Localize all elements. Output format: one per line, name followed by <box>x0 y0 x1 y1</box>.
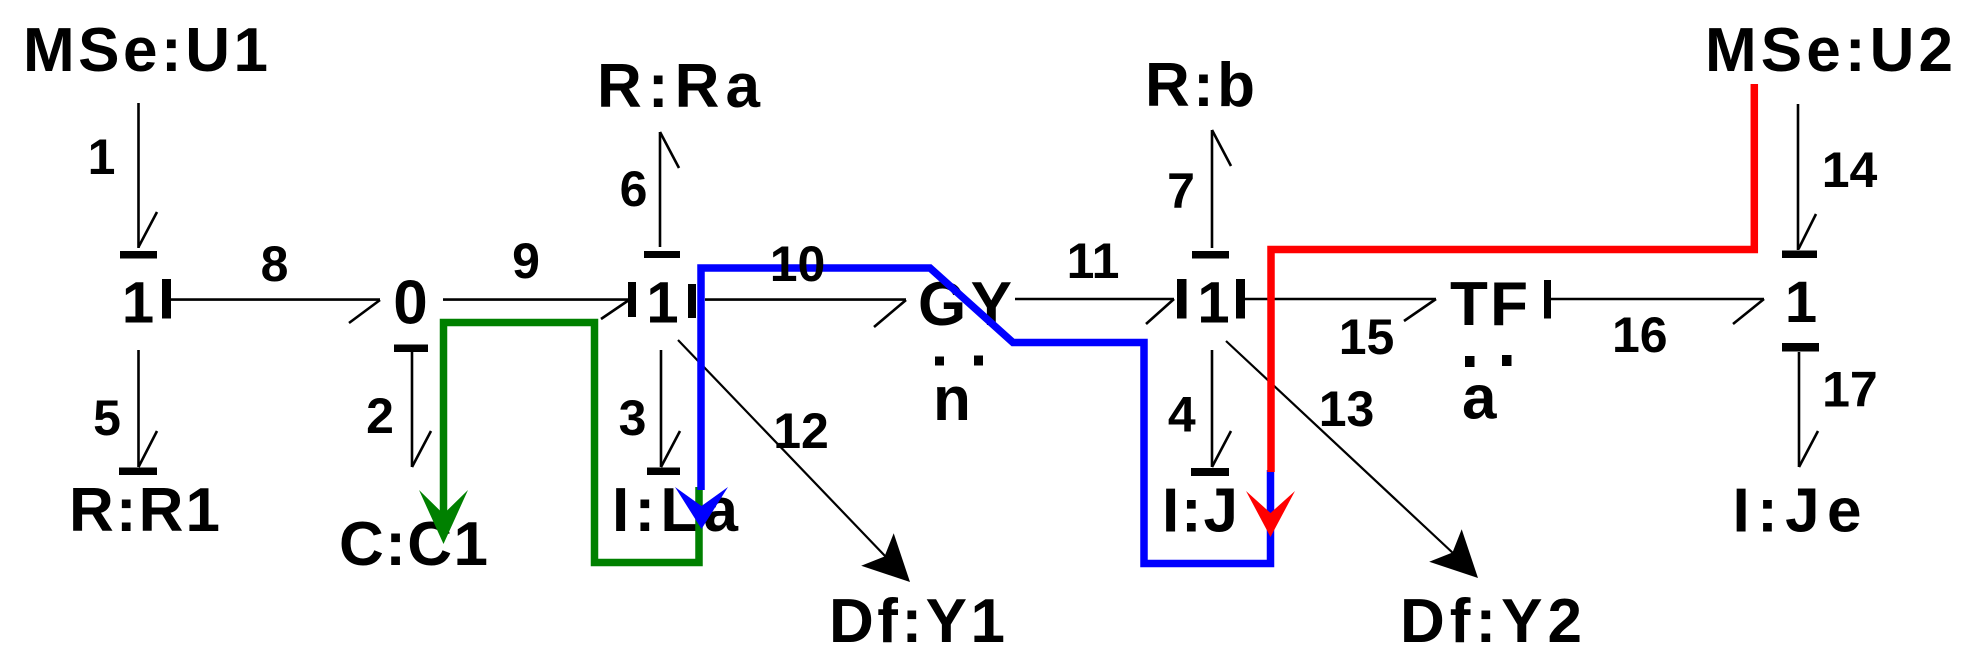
svg-text:7: 7 <box>1167 163 1195 219</box>
svg-text:a: a <box>1462 364 1497 433</box>
svg-text:1: 1 <box>88 129 116 185</box>
svg-text:9: 9 <box>512 233 540 289</box>
svg-text:R:R1: R:R1 <box>69 476 220 545</box>
svg-text:MSe:U1: MSe:U1 <box>23 16 268 85</box>
svg-text:I:J: I:J <box>1162 477 1238 546</box>
svg-text:5: 5 <box>93 390 121 446</box>
svg-text:0: 0 <box>393 269 427 338</box>
svg-text:R:b: R:b <box>1145 51 1255 120</box>
svg-text:8: 8 <box>261 236 289 292</box>
svg-text:1: 1 <box>1785 270 1817 335</box>
svg-text:Df:Y2: Df:Y2 <box>1400 587 1582 656</box>
svg-text:14: 14 <box>1822 142 1878 198</box>
svg-text:1: 1 <box>122 271 154 336</box>
svg-text:17: 17 <box>1822 362 1878 418</box>
svg-text:TF: TF <box>1450 270 1528 339</box>
svg-text:3: 3 <box>619 390 647 446</box>
svg-text:I:Je: I:Je <box>1733 477 1862 546</box>
svg-text:2: 2 <box>366 388 394 444</box>
svg-text:Df:Y1: Df:Y1 <box>829 587 1005 656</box>
svg-text:15: 15 <box>1339 309 1395 365</box>
svg-text:I:La: I:La <box>612 476 739 545</box>
svg-text:6: 6 <box>620 161 648 217</box>
svg-text:C:C1: C:C1 <box>339 510 488 579</box>
svg-text:12: 12 <box>773 403 829 459</box>
svg-text:R:Ra: R:Ra <box>597 52 761 121</box>
svg-text:1: 1 <box>1197 271 1229 336</box>
svg-text:11: 11 <box>1067 233 1120 289</box>
svg-text:13: 13 <box>1319 381 1375 437</box>
svg-text:16: 16 <box>1612 307 1668 363</box>
svg-text:10: 10 <box>770 236 826 292</box>
svg-text:1: 1 <box>646 271 678 336</box>
svg-text:n: n <box>933 365 971 434</box>
svg-text:4: 4 <box>1168 387 1196 443</box>
svg-text:MSe:U2: MSe:U2 <box>1705 16 1953 85</box>
